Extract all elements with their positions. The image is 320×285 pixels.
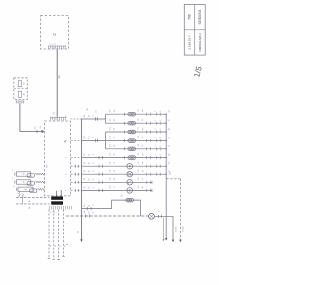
- lamp row wire: [66, 215, 149, 217]
- dashed wire left of bus top corner: [71, 118, 82, 120]
- ECU stub wire sender G1: [71, 181, 82, 183]
- connector pins indicator H3: [146, 189, 148, 192]
- ECU box a (dashed enclosure): [45, 121, 71, 196]
- fuse row F5 wire: [106, 148, 166, 150]
- battery box 2 (dashed enclosure): [41, 16, 69, 50]
- connector pins row F2: [146, 122, 148, 125]
- solenoid valve Y2: [17, 180, 31, 184]
- drop wire 2 to next sheet: [53, 210, 55, 260]
- svg-text:1: 1: [155, 145, 157, 146]
- fuse F6: [128, 156, 136, 160]
- inline tick row F2: [124, 122, 126, 125]
- svg-text:br: br: [88, 204, 91, 206]
- inline tick row F1: [124, 113, 126, 116]
- svg-text:br: br: [88, 186, 91, 188]
- ECU stub wire indicator H1: [71, 165, 82, 167]
- connector pins row F3: [146, 130, 148, 133]
- drop wire 1 to next sheet: [48, 210, 50, 259]
- junction dot row F3: [166, 131, 167, 132]
- junction dot row F1: [166, 114, 167, 115]
- wire fuse box to ECU left: [20, 103, 45, 131]
- connector pins row F5: [146, 147, 148, 150]
- svg-text:br: br: [113, 128, 116, 130]
- sender G1 symbol: [127, 180, 133, 186]
- lamp H4: [149, 213, 155, 219]
- svg-text:1 3 5 7 9: 1 3 5 7 9: [50, 212, 57, 214]
- sensor GZ: [18, 187, 33, 191]
- bracket pins: [96, 117, 98, 120]
- svg-text:br: br: [88, 136, 91, 138]
- svg-text:2: 2: [160, 120, 162, 121]
- ECU top connector strip: [50, 117, 67, 120]
- connector strip under battery box: [48, 46, 67, 49]
- svg-text:OM904LA(01): OM904LA(01): [198, 33, 202, 51]
- right bus bottom arrow: [165, 238, 168, 241]
- svg-text:2: 2: [160, 154, 162, 155]
- right supply bus: [165, 114, 167, 239]
- svg-text:br: br: [88, 162, 91, 164]
- svg-text:br: br: [141, 119, 144, 121]
- wire battery to ECU connector: [56, 50, 58, 117]
- fuse symbol upper cell: [18, 81, 21, 87]
- svg-text:2: 2: [160, 128, 162, 129]
- fuse row F3 wire: [106, 131, 166, 133]
- inline splice tick: [36, 130, 38, 133]
- fuse F2: [128, 121, 136, 125]
- svg-text:br: br: [88, 211, 91, 213]
- connector pins row F4: [146, 139, 148, 142]
- ECU main connector bar 1 (black): [51, 196, 63, 199]
- row sender G1 wire: [82, 181, 153, 183]
- ECU stub wire indicator H3: [71, 189, 82, 191]
- fuse F1: [128, 112, 136, 116]
- connector pin comb: [50, 206, 72, 210]
- svg-text:1: 1: [155, 128, 157, 129]
- svg-text:1: 1: [155, 120, 157, 121]
- indicator H2 symbol: [127, 171, 133, 177]
- inline tick row F4: [124, 139, 126, 142]
- bus stub row 6: [82, 157, 107, 159]
- title block dividers: [184, 5, 205, 56]
- svg-text:br: br: [88, 115, 91, 117]
- wire pair to ECU main connector (lower): [16, 203, 50, 205]
- connector pins indicator H1: [146, 165, 148, 168]
- bus stub rows 1-2 bracket: [82, 114, 107, 123]
- ECU stub wire indicator H2: [71, 173, 82, 175]
- left distribution bus: [81, 119, 83, 240]
- svg-text:2.199.15.7: 2.199.15.7: [188, 35, 192, 50]
- bus stub: [99, 189, 103, 192]
- bus stub: [99, 173, 103, 176]
- ECU main connector bar 2 (black): [51, 201, 63, 204]
- fuse row F1 wire: [106, 113, 166, 115]
- connector pins under fuse box: [16, 100, 24, 103]
- fuse F4: [128, 139, 136, 143]
- inline tick row F5: [124, 147, 126, 150]
- fuse row F6 wire: [106, 157, 166, 159]
- fuse row F4 wire: [106, 140, 166, 142]
- svg-text:gn: gn: [169, 128, 171, 130]
- svg-text:1: 1: [155, 154, 157, 155]
- wire pair to ECU main connector (upper): [16, 196, 50, 198]
- svg-text:2: 2: [160, 137, 162, 138]
- svg-text:br: br: [88, 178, 91, 180]
- junction dot row F5: [166, 148, 167, 149]
- vertical squiggle wire from Y1/Y2 down: [18, 192, 20, 198]
- stub wires above connector: [56, 191, 58, 197]
- fuse symbol lower cell: [18, 91, 21, 97]
- row indicator H1 wire: [82, 165, 167, 167]
- row indicator H3 wire: [82, 189, 153, 191]
- bus stub rows 3-5 bracket: [82, 132, 107, 149]
- svg-text:SE300904: SE300904: [198, 9, 202, 24]
- svg-text:796: 796: [188, 14, 192, 20]
- ECU right stub wire: [71, 140, 82, 142]
- indicator H3 symbol: [127, 188, 133, 194]
- inline tick row F6: [124, 156, 126, 159]
- connector pins indicator H2: [146, 173, 148, 176]
- wire bus to fuse F7 row: [82, 200, 141, 216]
- svg-text:gr: gr: [141, 170, 144, 172]
- indicator H1 symbol: [127, 163, 133, 169]
- plug symbol at ECU left entry: [41, 130, 43, 132]
- connector pins row F6: [146, 156, 148, 159]
- svg-text:br: br: [88, 153, 91, 155]
- svg-text:1: 1: [155, 111, 157, 112]
- drop wire 4 to next sheet: [63, 210, 65, 257]
- svg-text:1 2 3 4 5: 1 2 3 4 5: [49, 44, 56, 46]
- lamp right wire: [154, 215, 173, 217]
- junction dot row F2: [166, 123, 167, 124]
- svg-text:Kl.58: Kl.58: [183, 226, 185, 232]
- fuse row F2 wire: [106, 122, 166, 124]
- drop wire 3 to next sheet: [58, 210, 60, 260]
- faint drop left of bus: [163, 218, 165, 240]
- inline tick row F3: [124, 131, 126, 134]
- junction dot row F6: [166, 157, 167, 158]
- fuse F7: [126, 198, 134, 202]
- svg-text:2: 2: [52, 33, 57, 36]
- solenoid valve Y1: [17, 172, 31, 176]
- junction dot row F4: [166, 140, 167, 141]
- drop from lamp row: [172, 216, 174, 240]
- fuse F3: [128, 130, 136, 134]
- bus stub: [99, 181, 103, 184]
- svg-text:2: 2: [160, 145, 162, 146]
- svg-text:Kl.31: Kl.31: [175, 226, 177, 232]
- svg-text:br: br: [141, 186, 144, 188]
- left bus bottom arrow: [80, 239, 83, 242]
- svg-text:1: 1: [155, 137, 157, 138]
- connector pins row F1: [146, 113, 148, 116]
- ECU right stub wire: [71, 157, 82, 159]
- svg-text:2: 2: [160, 111, 162, 112]
- row indicator H2 wire: [82, 173, 167, 175]
- svg-text:br: br: [88, 170, 91, 172]
- title block frame: [184, 5, 205, 56]
- connector pins sender G1: [146, 181, 148, 184]
- fuse box (dashed enclosure, two cells): [14, 78, 27, 100]
- fuse F5: [128, 147, 136, 151]
- bus stub: [99, 165, 103, 168]
- svg-text:gr: gr: [113, 170, 116, 172]
- dashed drop right: [166, 179, 180, 240]
